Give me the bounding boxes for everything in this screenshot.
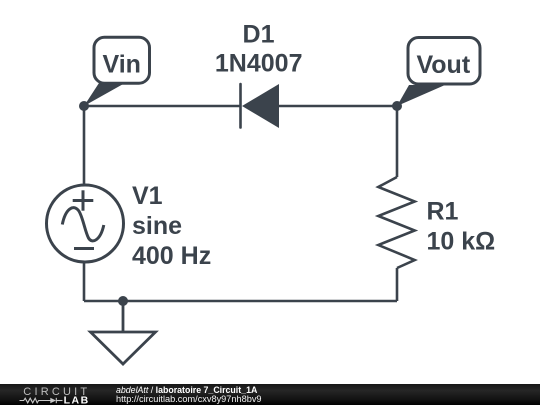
wire bottom (84, 300, 397, 303)
diode D1 (241, 84, 280, 128)
svg-text:R1: R1 (427, 198, 459, 226)
junction right node (392, 101, 402, 111)
wire right upper (396, 106, 399, 177)
svg-text:1N4007: 1N4007 (215, 50, 303, 78)
ground (91, 301, 156, 364)
wire left lower (83, 262, 86, 301)
CircuitLab logo (15, 384, 125, 405)
resistor R1 (378, 177, 414, 268)
svg-text:10 kΩ: 10 kΩ (427, 228, 496, 256)
label R1 10 kOhm (427, 198, 496, 256)
footer credit text line 2 (116, 394, 262, 404)
footer bar (0, 384, 540, 405)
svg-text:Vout: Vout (416, 51, 470, 79)
footer credit text line 1 (116, 385, 257, 395)
svg-text:V1: V1 (132, 182, 163, 210)
svg-text:sine: sine (132, 212, 182, 240)
wire right lower (396, 268, 399, 301)
node flag Vout (397, 38, 480, 107)
junction ground node (118, 296, 128, 306)
svg-text:Vin: Vin (102, 51, 140, 79)
svg-text:400 Hz: 400 Hz (132, 242, 211, 270)
node flag Vin (84, 37, 150, 106)
label V1 sine 400 Hz (132, 182, 211, 270)
svg-text:LAB: LAB (64, 394, 90, 405)
label D1 1N4007 (215, 21, 303, 78)
junction left node (79, 101, 89, 111)
wire top left segment (84, 105, 240, 108)
svg-text:D1: D1 (243, 21, 275, 49)
wire left upper (83, 106, 86, 185)
source V1 (47, 185, 124, 262)
wire top right segment (279, 105, 397, 108)
